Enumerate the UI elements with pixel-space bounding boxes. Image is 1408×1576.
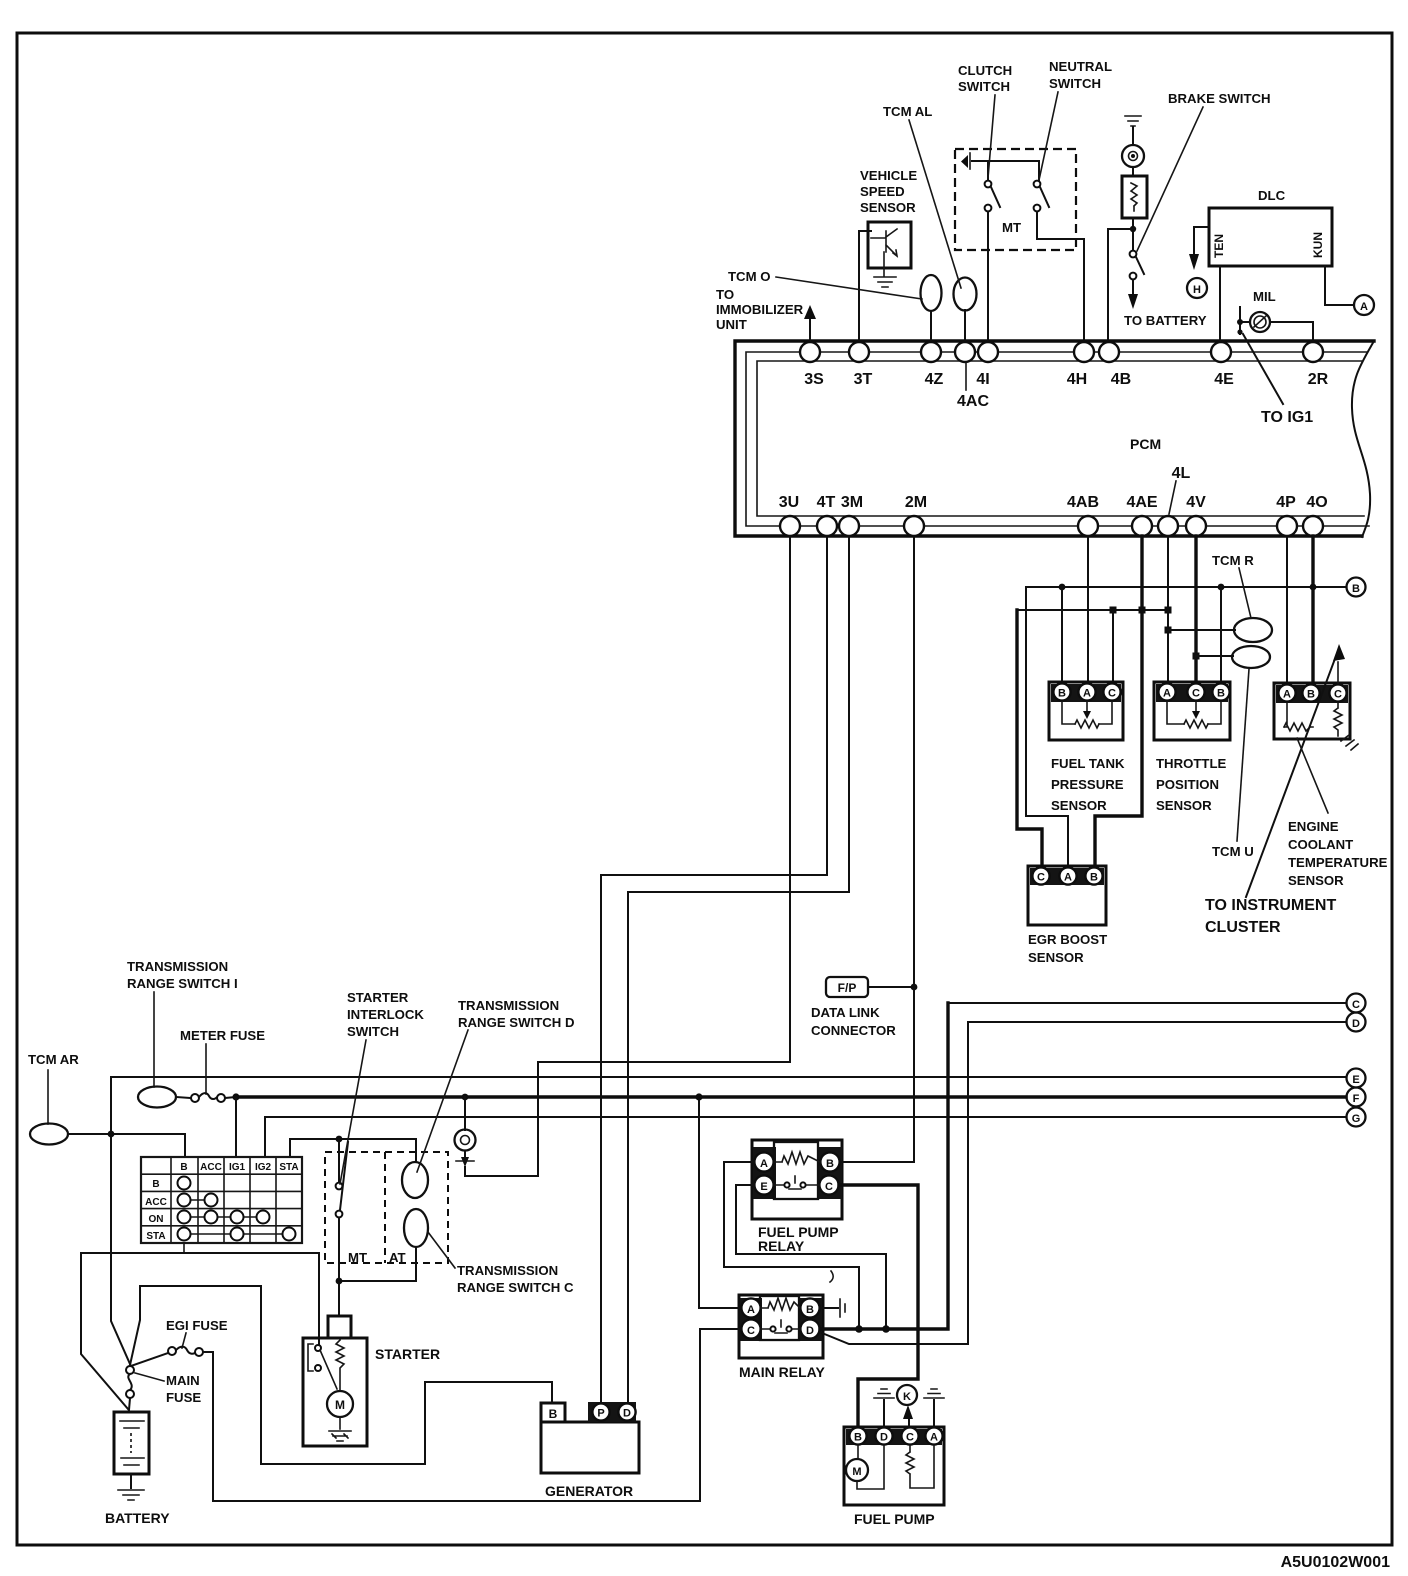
PCM pin 3S [800,342,820,362]
svg-text:M: M [335,1398,345,1412]
svg-text:B: B [1307,689,1315,701]
svg-text:MT: MT [1002,220,1021,235]
svg-text:G: G [1352,1113,1361,1125]
svg-text:A: A [1083,688,1091,700]
ground above fuel pump D [883,1400,885,1427]
net C line [948,1002,1346,1004]
branch TCM R [1165,627,1172,634]
svg-text:B: B [806,1304,814,1316]
arrow to battery [1128,294,1138,309]
wire 2M to fuel pump relay B [913,536,915,1162]
pointer range switch C [428,1232,455,1268]
svg-text:TCM R: TCM R [1212,553,1254,568]
svg-text:DATA LINK: DATA LINK [811,1005,880,1020]
svg-text:DLC: DLC [1258,188,1286,203]
svg-text:B: B [1058,688,1066,700]
svg-text:RANGE SWITCH C: RANGE SWITCH C [457,1280,574,1295]
svg-text:B: B [1090,872,1098,884]
vehicle speed sensor U1 [868,222,911,268]
ground above stoplight [1125,116,1141,126]
svg-text:A: A [1064,872,1072,884]
svg-text:C: C [1192,688,1200,700]
svg-text:MAIN: MAIN [166,1373,200,1388]
PCM torn edge curve [1352,341,1374,537]
svg-text:3T: 3T [854,371,873,388]
wire 4T to generator P [601,536,827,1402]
connector K above fuel pump C [908,1418,910,1427]
svg-text:C: C [825,1181,833,1193]
svg-text:TEMPERATURE: TEMPERATURE [1288,855,1388,870]
svg-text:4B: 4B [1111,371,1131,388]
svg-text:PCM: PCM [1130,436,1161,452]
svg-text:SENSOR: SENSOR [860,200,916,215]
connector TCM AL [954,278,977,311]
ground below VSS [874,277,896,287]
svg-text:IG1: IG1 [229,1162,246,1173]
svg-text:D: D [806,1325,814,1337]
wire 3S to immobilizer [809,318,811,342]
svg-text:MIL: MIL [1253,289,1276,304]
relay contact [774,1176,819,1189]
wire neutral to 4H [1037,212,1084,342]
ignition switch table [141,1157,302,1243]
wire junction to 4B [1108,229,1133,342]
svg-text:INTERLOCK: INTERLOCK [347,1007,424,1022]
connector TCM U [1232,646,1270,668]
svg-text:B: B [1217,688,1225,700]
svg-text:TEN: TEN [1212,234,1226,258]
svg-text:SENSOR: SENSOR [1028,950,1084,965]
pointer ECT label [1297,738,1328,813]
transmission range switch D [402,1162,428,1198]
svg-text:B: B [180,1162,187,1173]
wire E line drop to main fuse [111,1077,130,1364]
svg-text:D: D [623,1408,631,1420]
svg-text:SPEED: SPEED [860,184,905,199]
svg-text:H: H [1193,284,1201,296]
wire MIL left stub [1240,307,1250,334]
starter motor M [327,1391,353,1417]
svg-text:B: B [854,1432,862,1444]
pointer TCM R [1239,568,1251,618]
svg-text:STA: STA [279,1162,298,1173]
wire FP relay B to 2M [840,1161,914,1163]
wire EGI fuse to main relay C [213,1329,700,1501]
junction E drop / TCM AR [108,1131,115,1138]
net G line [265,1116,1346,1118]
wire main relay D to D line [822,1022,968,1344]
svg-text:BRAKE SWITCH: BRAKE SWITCH [1168,91,1271,106]
stoplight lamp [1132,127,1134,145]
PCM pin 4H [1074,342,1094,362]
junction FTP C [1110,607,1117,614]
svg-text:COOLANT: COOLANT [1288,837,1353,852]
svg-text:TCM O: TCM O [728,269,771,284]
svg-text:M: M [852,1466,861,1478]
pointer TCM U [1237,669,1249,841]
svg-text:NEUTRAL: NEUTRAL [1049,59,1112,74]
wire ECT C to instrument cluster arrow [1337,662,1339,683]
svg-text:4I: 4I [976,371,989,388]
connector F [1347,1088,1366,1107]
svg-text:P: P [597,1408,604,1420]
PCM pin 4AC [955,342,975,362]
ground below starter motor [329,1431,351,1441]
svg-text:4E: 4E [1214,371,1234,388]
battery [114,1412,149,1474]
junction brake feed [1130,226,1136,232]
svg-text:VEHICLE: VEHICLE [860,168,917,183]
svg-text:THROTTLE: THROTTLE [1156,756,1227,771]
connector B [1347,578,1366,597]
svg-text:2M: 2M [905,494,927,511]
PCM pin 4B [1099,342,1119,362]
PCM pin 4L [1158,516,1178,536]
svg-text:TO INSTRUMENT: TO INSTRUMENT [1205,897,1336,914]
svg-text:MAIN RELAY: MAIN RELAY [739,1364,825,1380]
svg-text:ACC: ACC [145,1197,167,1208]
wire MIL right to 2R [1270,322,1313,342]
wire FTP C pin [1112,610,1114,684]
transmission range switch C [404,1209,428,1247]
svg-text:A: A [760,1158,768,1170]
svg-text:RELAY: RELAY [758,1238,805,1254]
svg-text:TCM U: TCM U [1212,844,1254,859]
svg-text:SENSOR: SENSOR [1156,798,1212,813]
arrow to immobilizer unit [804,305,816,319]
junction TPS B on line B [1218,584,1225,591]
PCM pin 4AB [1078,516,1098,536]
wire 3U down [789,536,791,1062]
brake switch SW3 [1130,251,1137,258]
relay coil [774,1152,820,1164]
net F line [236,1095,1346,1098]
fuel pump relay [752,1140,842,1219]
wire to junction [1132,218,1134,250]
svg-text:CLUSTER: CLUSTER [1205,919,1281,936]
svg-text:B: B [826,1158,834,1170]
PCM pin 4V [1186,516,1206,536]
wire FP relay A to main relay D line [724,1162,859,1325]
net D line [968,1021,1346,1023]
svg-text:E: E [760,1181,767,1193]
fuel tank pressure sensor [1049,682,1123,740]
net E line [111,1076,1346,1078]
branch TCM U [1193,653,1200,660]
neutral switch SW2 [1034,181,1041,188]
junction 4L end [1165,607,1172,614]
connector C [1347,994,1366,1013]
fuel pump [844,1427,944,1505]
svg-text:4AB: 4AB [1067,494,1099,511]
grommet connector on F line [462,1094,469,1101]
svg-text:C: C [747,1325,755,1337]
wire 4V to TPS C [1194,536,1197,684]
PCM pin 4E [1211,342,1231,362]
wire to IG1 column [235,1097,237,1157]
wire 3M to generator D [628,536,849,1402]
connector H [1187,278,1207,298]
pointer brake switch [1137,107,1203,251]
starter solenoid terminal [328,1316,351,1338]
wire FP relay C to fuel pump B [839,1185,918,1426]
pointer neutral switch [1039,92,1058,180]
PCM outer box with torn right edge [735,341,1374,536]
wire KUN to A [1325,266,1353,305]
svg-text:4T: 4T [817,494,836,511]
ECT internal resistor to case ground [1334,703,1342,736]
svg-text:STARTER: STARTER [347,990,409,1005]
svg-text:GENERATOR: GENERATOR [545,1483,633,1499]
throttle position sensor [1154,682,1230,740]
EGR boost sensor [1028,866,1106,925]
wire 4O to ECT B [1311,536,1314,684]
svg-text:F/P: F/P [838,981,857,995]
svg-text:4H: 4H [1067,371,1087,388]
svg-text:D: D [880,1432,888,1444]
svg-text:F: F [1353,1093,1360,1105]
wire grommet to 3U [465,1062,790,1176]
wire main relay D bus [820,1003,948,1329]
svg-text:FUEL TANK: FUEL TANK [1051,756,1125,771]
MT switch dashed box [955,149,1076,250]
svg-text:C: C [1334,689,1342,701]
starter interlock / range switch dashed box [325,1152,448,1263]
svg-text:MT: MT [348,1250,367,1265]
svg-text:4P: 4P [1276,494,1296,511]
main relay [739,1295,823,1358]
F/P data link connector [826,977,868,997]
svg-text:FUEL PUMP: FUEL PUMP [854,1511,935,1527]
wire TPS B pin [1220,587,1222,684]
svg-text:TCM AL: TCM AL [883,104,932,119]
pointer interlock switch [340,1040,366,1184]
junction ECT B on line B [1310,584,1317,591]
svg-text:EGI FUSE: EGI FUSE [166,1318,228,1333]
main relay coil [761,1298,800,1310]
svg-text:3M: 3M [841,494,863,511]
svg-text:C: C [1352,999,1360,1011]
sensor ground line net B [1026,586,1345,588]
svg-text:4AE: 4AE [1126,494,1157,511]
PCM pin 2R [1303,342,1323,362]
wire clutch/neutral top [972,161,1039,180]
PCM inner border lines [746,352,1369,526]
wire FTP B pin [1061,587,1063,684]
connector G [1347,1108,1366,1127]
wire vref to EGR C [1017,610,1042,867]
pointer TCM AL [909,120,961,288]
pin 4AC label pointer [965,363,967,390]
svg-text:A: A [1163,688,1171,700]
chassis symbol in MT box [961,155,968,168]
fuel pump sender resistor [906,1445,934,1488]
ignition contacts row STA [184,1233,289,1235]
svg-text:E: E [1352,1074,1359,1086]
wire 4P to ECT A [1286,536,1288,684]
PCM pin 4Z [921,342,941,362]
svg-text:SWITCH: SWITCH [1049,76,1101,91]
wire 4AB to FTP A [1087,536,1089,684]
starter solenoid coil [336,1340,344,1391]
clutch switch SW1 [987,161,989,180]
svg-text:TRANSMISSION: TRANSMISSION [127,959,228,974]
ground below battery [118,1490,144,1500]
svg-text:EGR BOOST: EGR BOOST [1028,932,1107,947]
starter interlock switch [338,1139,340,1182]
svg-text:3U: 3U [779,494,799,511]
PCM pin 3U [780,516,800,536]
svg-text:A: A [747,1304,755,1316]
svg-text:4O: 4O [1306,494,1327,511]
svg-text:C: C [1108,688,1116,700]
svg-text:TO: TO [716,287,734,302]
svg-text:TCM AR: TCM AR [28,1052,79,1067]
svg-text:IG2: IG2 [255,1162,272,1173]
wire pointer MIL to IG1 [1243,334,1283,404]
pointer clutch switch [988,95,995,178]
svg-text:SWITCH: SWITCH [347,1024,399,1039]
PCM pin 4I [978,342,998,362]
svg-text:4AC: 4AC [957,393,989,410]
svg-text:C: C [1037,872,1045,884]
junction meter fuse / IG1 [232,1093,239,1100]
svg-text:CONNECTOR: CONNECTOR [811,1023,896,1038]
svg-text:A: A [1360,301,1368,313]
connector TCM O [921,275,942,311]
stoplight resistor box [1132,167,1134,176]
starter motor box [303,1338,367,1446]
svg-text:3S: 3S [804,371,824,388]
svg-text:KUN: KUN [1311,232,1325,258]
svg-text:ACC: ACC [200,1162,222,1173]
svg-text:AT: AT [389,1250,406,1265]
vref line net [1017,609,1168,611]
wire funnel left to EGR A [1026,587,1068,867]
connector TCM R [1234,618,1272,642]
svg-text:K: K [903,1391,911,1403]
ground above fuel pump A [933,1400,935,1427]
svg-text:STA: STA [146,1231,165,1242]
svg-text:PRESSURE: PRESSURE [1051,777,1124,792]
connector E [1347,1069,1366,1088]
wire main relay C left [700,1328,741,1330]
wire TCM AR to ignition B column [68,1134,185,1157]
ignition contacts row ON [184,1216,263,1218]
svg-text:B: B [1352,583,1360,595]
STA wire to switches [290,1139,416,1162]
svg-text:RANGE SWITCH I: RANGE SWITCH I [127,976,238,991]
wire FP relay E to main relay D line [736,1185,886,1325]
svg-text:ENGINE: ENGINE [1288,819,1339,834]
svg-text:A: A [930,1432,938,1444]
svg-text:4Z: 4Z [925,371,944,388]
svg-text:METER FUSE: METER FUSE [180,1028,265,1043]
PCM pin 4P [1277,516,1297,536]
svg-text:FUSE: FUSE [166,1390,201,1405]
ignition contacts row B [178,1177,191,1190]
connector A [1354,295,1374,315]
wire hop artifact [830,1271,833,1282]
svg-text:STARTER: STARTER [375,1346,440,1362]
pointer TCM O [776,277,922,299]
svg-text:SENSOR: SENSOR [1051,798,1107,813]
svg-text:B: B [152,1179,159,1190]
svg-text:TRANSMISSION: TRANSMISSION [458,998,559,1013]
svg-text:TO BATTERY: TO BATTERY [1124,313,1207,328]
wire STA line to STA column [289,1139,291,1157]
svg-text:UNIT: UNIT [716,317,747,332]
svg-text:SWITCH: SWITCH [958,79,1010,94]
svg-text:4L: 4L [1172,465,1191,482]
svg-text:4V: 4V [1186,494,1206,511]
svg-text:A5U0102W001: A5U0102W001 [1281,1554,1391,1571]
wire 4L to TPS A [1167,536,1169,684]
ground at main relay B [820,1307,838,1309]
wire battery feed to starter contact [81,1253,319,1409]
wire main relay A to F line [699,1097,741,1308]
arrow to H [1189,254,1199,270]
svg-text:B: B [549,1407,558,1421]
wire generator B to main fuse node [130,1286,552,1464]
svg-text:ON: ON [149,1214,164,1225]
svg-text:2R: 2R [1308,371,1329,388]
svg-text:RANGE SWITCH D: RANGE SWITCH D [458,1015,575,1030]
wire 3T to vehicle speed sensor [859,231,871,342]
svg-text:TRANSMISSION: TRANSMISSION [457,1263,558,1278]
generator [541,1422,639,1473]
PCM pin 4T [817,516,837,536]
PCM pin 4AE [1132,516,1152,536]
wire G line to IG2 column [264,1117,266,1157]
wire range C to starter [339,1247,416,1281]
svg-text:POSITION: POSITION [1156,777,1219,792]
junction FTP B on line B [1059,584,1066,591]
engine coolant temperature sensor [1274,683,1350,739]
ignition contacts row ACC [184,1199,211,1201]
svg-text:CLUTCH: CLUTCH [958,63,1012,78]
fuel pump motor [846,1459,868,1481]
svg-text:SENSOR: SENSOR [1288,873,1344,888]
svg-text:D: D [1352,1018,1360,1030]
wire B column to battery line [183,1243,185,1253]
wire TEN to H [1194,227,1209,253]
PCM pin 2M [904,516,924,536]
svg-text:BATTERY: BATTERY [105,1510,170,1526]
PCM pin 3M [839,516,859,536]
svg-text:C: C [906,1432,914,1444]
wire 4AE to EGR B [1095,536,1142,867]
DLC connector box [1209,208,1332,266]
wire DLC to 4E [1219,266,1221,342]
svg-text:A: A [1283,689,1291,701]
PCM pin 4O [1303,516,1323,536]
junction 4AE [1139,607,1146,614]
svg-text:TO IG1: TO IG1 [1261,409,1313,426]
connector D [1347,1013,1366,1032]
svg-text:IMMOBILIZER: IMMOBILIZER [716,302,804,317]
main relay contact [761,1320,800,1333]
PCM pin 3T [849,342,869,362]
pointer range switch D [417,1030,468,1172]
